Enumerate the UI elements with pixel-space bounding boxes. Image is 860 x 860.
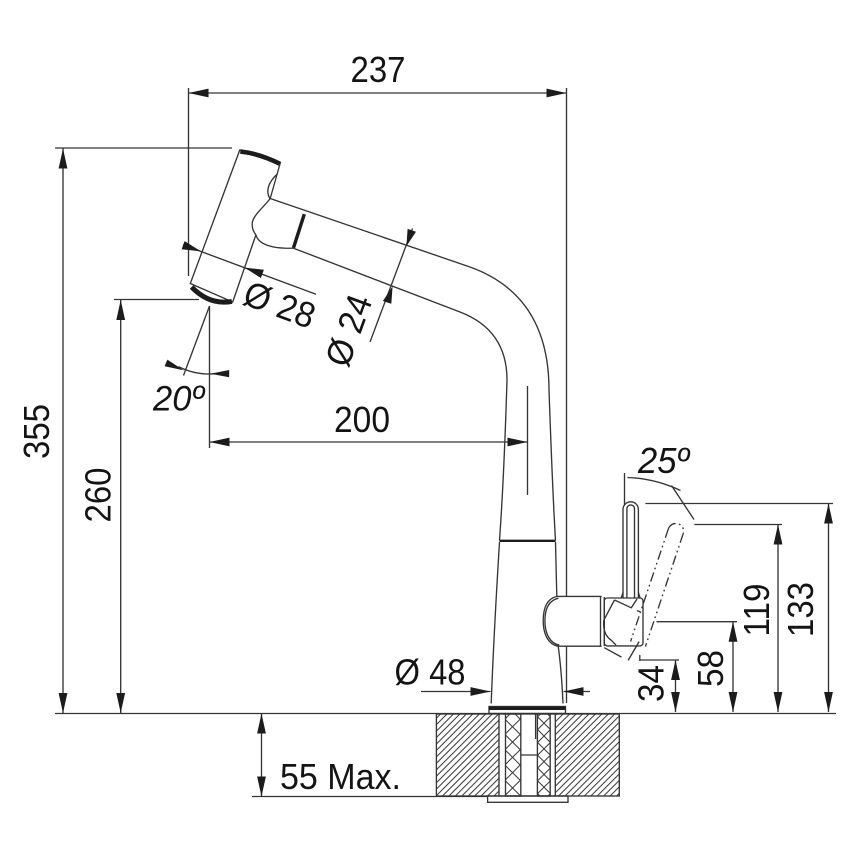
dimension 119 line [774,525,783,713]
joint seam on tube [294,214,305,248]
shank bore step line [521,754,538,756]
vertical ray from spray tip (20 deg vertex + 200 extension) [209,306,211,448]
svg-text:Ø 48: Ø 48 [395,652,466,693]
hub facet left line [604,600,615,620]
base cone left edge [491,542,499,704]
base cone right edge [556,542,557,596]
reference line top of 355 [55,147,232,149]
arrowhead left of 20 deg arc [165,360,184,371]
hub facet V line [615,599,638,608]
valve dome cap inner [545,598,559,645]
counter hole edge right [554,714,556,796]
25 deg arc [628,478,681,491]
arc of 20 deg angle [179,367,216,374]
arrowhead left of 48 [471,687,491,696]
tube lower edge + bend inner + body left edge [294,248,508,540]
valve cylinder top edge [557,595,602,597]
counter block outline [436,714,619,796]
svg-text:260: 260 [78,468,119,523]
base flange top thick edge [489,707,566,710]
threaded shank left strip [506,714,521,796]
phantom lever right edge [645,534,683,647]
svg-text:355: 355 [16,404,57,459]
valve dome cap outer [543,596,558,646]
diameter 28 dimension line [182,241,316,294]
spray head outline [190,150,280,302]
handle lower tip line left [604,648,621,657]
phantom lever left edge [631,529,669,642]
counter block hatching [436,714,619,796]
svg-text:58: 58 [690,650,731,687]
lever stem base flare [621,593,640,599]
counter hole edge left [498,714,500,796]
phantom lever top cap [668,523,683,533]
dimension 133 line [824,504,833,713]
reference line for 58 [657,621,738,623]
dimension 260 line [116,300,125,713]
dimension 200 line [210,438,528,447]
counter surface line [55,713,836,715]
tube upper edge + bend outer + body right edge [270,199,555,541]
reference line for 133 [645,503,833,505]
arrowhead right of 20 deg arc [210,370,229,377]
collar bottom curve [256,235,294,248]
svg-text:237: 237 [351,49,406,90]
svg-text:133: 133 [780,582,821,637]
threaded shank left strip outline [506,714,521,796]
diameter 48 dimension line left part [421,691,491,693]
lever stem outer [623,502,638,598]
threaded shank right strip [537,714,550,796]
hub facet lower arc [604,620,616,645]
dimension 58 line [729,622,738,712]
dimension 355 line [59,149,68,714]
lever stem inner [627,505,635,598]
handle lower tip line right [628,642,639,661]
svg-text:20º: 20º [152,379,206,419]
crescent on head right edge [268,174,277,199]
valve cylinder bottom edge [558,645,602,647]
tick at handle tip for 34 [639,655,641,661]
dimension 34 line [671,660,680,712]
shank bore detail line [535,714,537,739]
25 deg vertical reference line [624,473,626,505]
body centerline extension for 200 [527,386,529,495]
counter underside reference line [252,796,487,798]
svg-text:25º: 25º [637,440,691,481]
hub facet tick [637,611,640,612]
reference line top of 260 [114,299,199,301]
svg-text:34: 34 [631,665,672,702]
svg-text:119: 119 [736,584,777,637]
washer under counter [488,796,568,802]
25 deg tilted reference line [672,486,695,520]
reference line for 119 [694,524,782,526]
dimension 55 Max line [257,714,266,797]
base flange [489,707,566,714]
spray head bottom cap [192,287,232,302]
arrowhead right of 48 [564,687,584,696]
diameter 48 dimension line right part [564,691,591,693]
svg-text:200: 200 [334,399,390,440]
valve flange line 1 [600,596,602,646]
svg-text:55 Max.: 55 Max. [280,756,401,797]
valve flange line 2 [603,597,605,646]
reference line for 34 [640,659,679,661]
extension line right of 237 [566,88,568,596]
threaded shank right strip outline [537,714,550,796]
diameter 24 dimension line [370,229,416,343]
tilted ray of 20 deg angle [184,306,210,376]
extension line left of 237 [188,88,190,276]
handle hub box [604,598,643,646]
extension line right of 237 lower part [566,647,568,704]
body seam thick line [500,540,556,542]
spray head top cap [240,152,279,164]
dimension 237 line [189,89,567,98]
